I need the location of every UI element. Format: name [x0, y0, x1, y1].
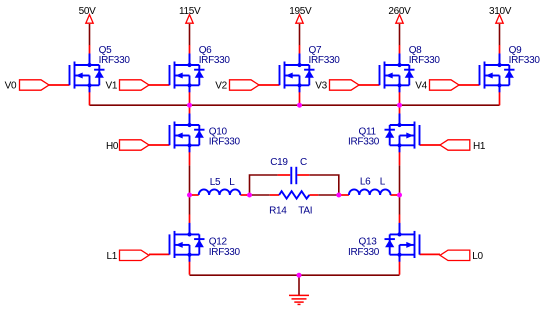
- svg-text:IRF330: IRF330: [199, 55, 231, 66]
- svg-text:195V: 195V: [289, 6, 312, 17]
- svg-text:H0: H0: [106, 141, 119, 152]
- svg-text:IRF330: IRF330: [99, 55, 131, 66]
- svg-text:C19: C19: [270, 157, 288, 168]
- svg-text:C: C: [300, 157, 307, 168]
- svg-text:R14: R14: [269, 206, 287, 217]
- svg-text:IRF330: IRF330: [209, 137, 241, 148]
- svg-text:V1: V1: [106, 81, 118, 92]
- svg-text:L6: L6: [360, 177, 371, 188]
- svg-text:115V: 115V: [179, 6, 201, 17]
- svg-text:TAI: TAI: [298, 206, 312, 217]
- svg-text:260V: 260V: [388, 6, 411, 17]
- svg-text:310V: 310V: [489, 6, 512, 17]
- svg-text:Q13: Q13: [359, 237, 378, 248]
- svg-text:L0: L0: [472, 251, 483, 262]
- svg-text:Q12: Q12: [209, 237, 228, 248]
- svg-text:IRF330: IRF330: [348, 247, 380, 258]
- svg-text:IRF330: IRF330: [209, 247, 241, 258]
- svg-text:V4: V4: [415, 81, 427, 92]
- svg-text:L1: L1: [107, 251, 118, 262]
- svg-text:50V: 50V: [79, 6, 97, 17]
- svg-text:V0: V0: [5, 81, 17, 92]
- svg-text:IRF330: IRF330: [509, 55, 541, 66]
- svg-text:IRF330: IRF330: [309, 55, 341, 66]
- svg-text:L5: L5: [210, 177, 221, 188]
- svg-text:L: L: [380, 177, 386, 188]
- svg-text:IRF330: IRF330: [348, 137, 380, 148]
- svg-text:L: L: [229, 177, 235, 188]
- svg-text:V2: V2: [215, 81, 227, 92]
- svg-text:H1: H1: [473, 141, 486, 152]
- svg-text:IRF330: IRF330: [409, 55, 441, 66]
- svg-text:V3: V3: [315, 81, 327, 92]
